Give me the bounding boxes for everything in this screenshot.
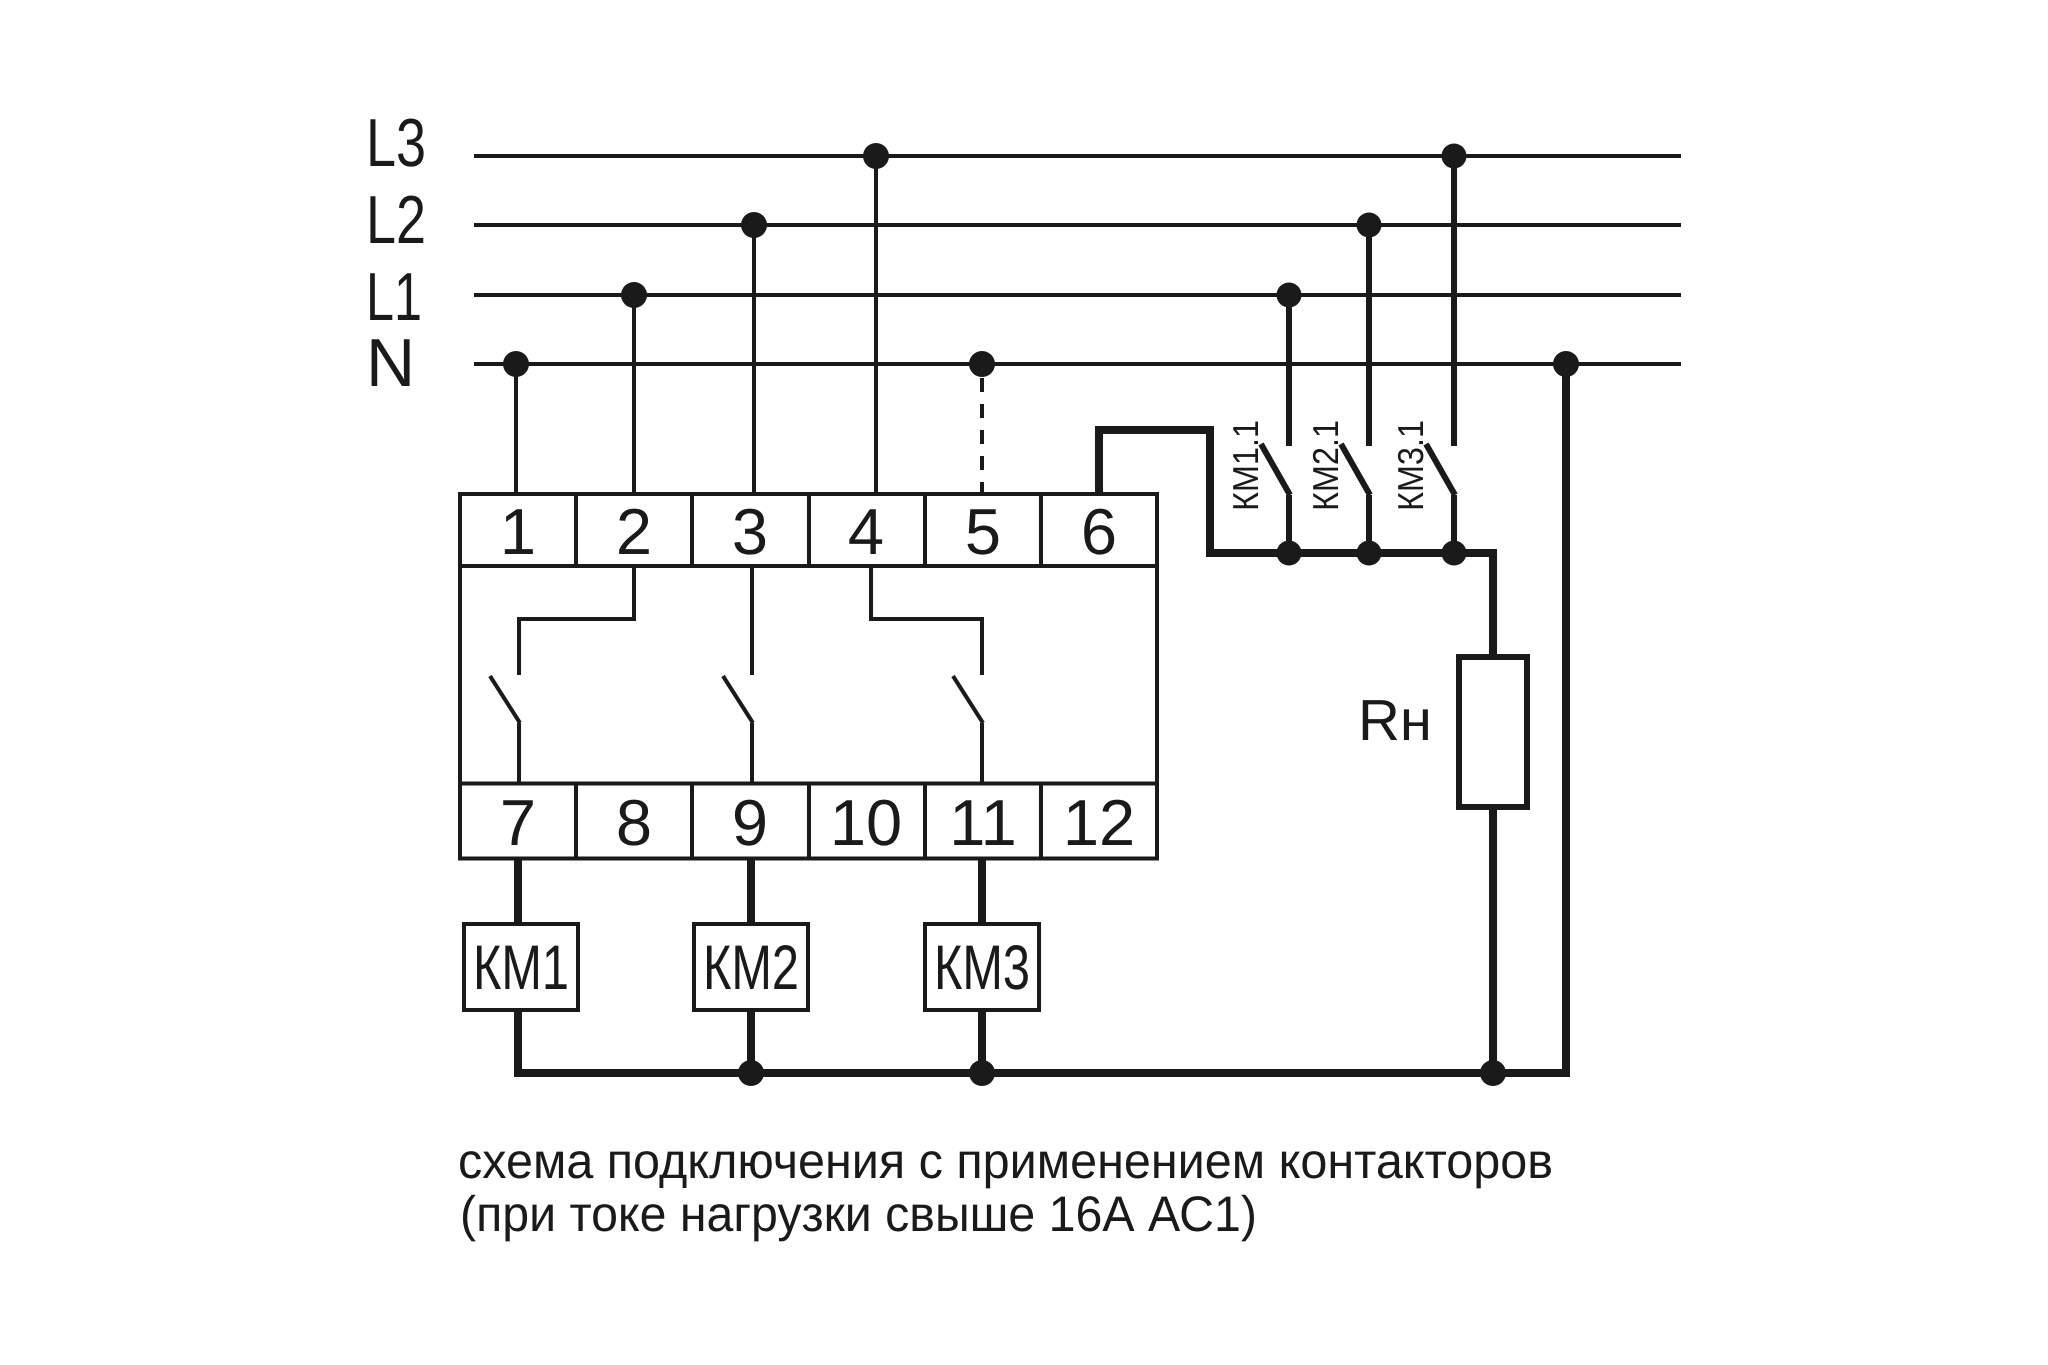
svg-text:7: 7 [500, 786, 536, 859]
svg-text:6: 6 [1081, 495, 1117, 568]
wire bus N [474, 362, 1681, 366]
contact SW1 blade [490, 676, 520, 723]
svg-text:4: 4 [848, 495, 884, 568]
svg-text:10: 10 [830, 786, 902, 859]
coil KM1 box [464, 924, 578, 1010]
contact KM3.1 top wire from L3 [1451, 156, 1457, 446]
wire corner down to load [1487, 553, 1493, 657]
svg-text:Rн: Rн [1358, 688, 1432, 753]
contact KM1.1 blade [1261, 444, 1290, 495]
label KM3.1 [1398, 422, 1424, 509]
wire tap pin3 from L2 [752, 225, 756, 496]
coil KM2 box [694, 924, 808, 1010]
node junction KM1.1 [1277, 541, 1302, 566]
contact SW2 blade [723, 676, 753, 723]
relay device outline [460, 494, 1157, 859]
terminal strip top row line [460, 564, 1157, 568]
node junction N-return [1553, 351, 1579, 377]
terminal strip bottom row line [460, 782, 1157, 786]
node junction N-pin1 [503, 351, 529, 377]
wire pin7 to KM1 coil [514, 859, 522, 925]
wire pin6 to contactor bank [1099, 430, 1491, 553]
node junction KM2-bus [738, 1060, 764, 1086]
wire internal pin4 to contact SW3 [871, 566, 982, 675]
wire internal SW2 to pin9 [750, 723, 754, 784]
node junction L2-pin3 [741, 212, 767, 238]
node junction KM2.1 [1357, 541, 1382, 566]
wire internal pin3 to contact SW2 [750, 566, 754, 675]
wire tap pin4 from L3 [874, 156, 878, 496]
terminal separators bottom row [574, 784, 578, 859]
svg-text:9: 9 [732, 786, 768, 859]
svg-text:L2: L2 [366, 182, 426, 258]
label KM2.1 [1313, 422, 1338, 509]
contact KM2.1 top wire from L2 [1366, 225, 1372, 446]
svg-text:схема подключения с применение: схема подключения с применением контакто… [458, 1133, 1553, 1189]
svg-text:КМ2: КМ2 [703, 933, 799, 1003]
svg-text:2: 2 [616, 495, 652, 568]
coil KM3 box [925, 924, 1039, 1010]
node junction resistor-bus [1480, 1060, 1506, 1086]
svg-text:11: 11 [949, 786, 1016, 859]
wire pin9 to KM2 coil [747, 859, 755, 925]
svg-text:3: 3 [732, 495, 768, 568]
label KM1.1 [1233, 422, 1258, 509]
wire bus L1 [474, 293, 1681, 297]
wire KM1.1 to bank [1286, 495, 1292, 553]
svg-text:(при токе нагрузки свыше 16А А: (при токе нагрузки свыше 16А АС1) [460, 1186, 1257, 1242]
svg-text:L1: L1 [366, 259, 422, 335]
node junction KM3.1 [1442, 541, 1467, 566]
wire internal SW3 to pin11 [980, 723, 984, 784]
node junction L1-KM1.1 [1277, 283, 1302, 308]
wire resistor bottom to bus [1489, 807, 1497, 1073]
wire pin11 to KM3 coil [978, 859, 986, 925]
wire dashed tap pin5 from N [980, 378, 984, 492]
svg-text:КМ1: КМ1 [473, 933, 569, 1003]
wire bus L3 [474, 154, 1681, 158]
wire tap pin1 from N [514, 364, 518, 496]
wire tap pin2 from L1 [632, 295, 636, 496]
terminal separators top row [574, 494, 578, 566]
contact KM3.1 blade [1426, 444, 1455, 495]
node junction L3-KM3.1 [1442, 144, 1467, 169]
wire internal pin2 to contact SW1 [519, 566, 634, 675]
contact SW3 blade [953, 676, 983, 723]
wire KM2.1 to bank [1366, 495, 1372, 553]
wire KM2 coil to bus [747, 1010, 755, 1073]
svg-text:1: 1 [500, 495, 536, 568]
svg-text:12: 12 [1063, 786, 1135, 859]
node junction L2-KM2.1 [1357, 213, 1382, 238]
wire KM3 coil to bus [978, 1010, 986, 1073]
wire bottom bus [518, 1010, 1570, 1073]
wire KM3.1 to bank [1451, 495, 1457, 553]
wire right return from N [1562, 364, 1570, 1077]
contact KM2.1 blade [1341, 444, 1370, 495]
svg-text:КМ3: КМ3 [934, 933, 1030, 1003]
node junction KM3-bus [969, 1060, 995, 1086]
wire internal SW1 to pin7 [517, 723, 521, 784]
node junction N-pin5 [969, 351, 995, 377]
svg-text:5: 5 [965, 495, 1001, 568]
node junction L3-pin4 [863, 143, 889, 169]
resistor Rn body [1459, 657, 1527, 807]
svg-text:L3: L3 [366, 105, 426, 181]
svg-text:N: N [366, 325, 415, 401]
svg-text:8: 8 [616, 786, 652, 859]
node junction L1-pin2 [621, 282, 647, 308]
wire bus L2 [474, 223, 1681, 227]
contact KM1.1 top wire from L1 [1286, 295, 1292, 446]
